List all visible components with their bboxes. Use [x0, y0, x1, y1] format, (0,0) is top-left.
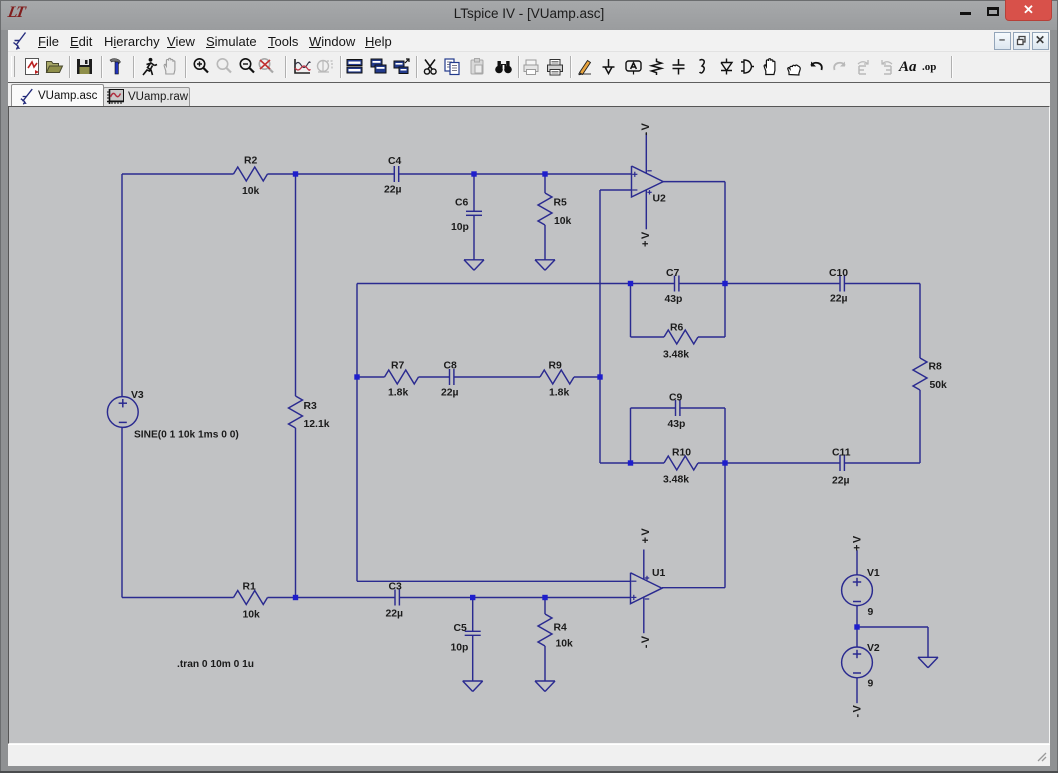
toolbar icon: cascade windows	[368, 56, 389, 77]
svg-text:9: 9	[868, 607, 874, 618]
toolbar bottom edge	[8, 82, 1050, 84]
svg-text:R3: R3	[304, 401, 318, 412]
toolbar icon: mirror (disabled)	[876, 56, 897, 77]
toolbar icon: draw wire	[574, 56, 595, 77]
tab bar	[8, 83, 1050, 106]
svg-text:50k: 50k	[930, 380, 948, 391]
capacitor C7	[674, 276, 676, 292]
toolbar icon: zoom out	[237, 56, 258, 77]
svg-text:C3: C3	[389, 582, 403, 593]
toolbar icon: place inductor	[691, 56, 712, 77]
resistor R1	[234, 591, 268, 605]
MDI restore button	[1013, 32, 1030, 50]
inactive tab VUamp.raw	[103, 87, 190, 108]
toolbar icon: copy	[442, 56, 463, 77]
active tab VUamp.asc	[11, 84, 104, 107]
wire: U1 output up to R10 node	[662, 587, 725, 589]
capacitor C4	[393, 166, 395, 182]
capacitor C9	[675, 400, 677, 416]
svg-text:22µ: 22µ	[830, 294, 848, 305]
toolbar	[8, 51, 1050, 83]
wire: V2 bottom lead	[856, 678, 858, 704]
junction node R5 tap	[542, 171, 547, 176]
LT logo	[6, 4, 31, 22]
svg-text:+V: +V	[640, 230, 652, 247]
svg-text:V3: V3	[131, 390, 144, 401]
svg-text:22µ: 22µ	[832, 476, 850, 487]
svg-text:C11: C11	[832, 448, 851, 459]
junction node R7 tap on box left	[354, 374, 359, 379]
toolbar icon: place capacitor	[668, 56, 689, 77]
title bar	[1, 1, 1057, 30]
resistor R2	[234, 167, 268, 181]
toolbar icon: zoom back (disabled)	[214, 56, 235, 77]
resistor R6	[664, 330, 698, 344]
junction node R9/feedback column	[597, 374, 602, 379]
wire: input top rail y=174 from left column to U2 +input, through R2 and C4	[122, 173, 234, 175]
wire: R10 row y=463 through C11 to right column	[631, 462, 665, 464]
voltage source V2	[842, 647, 873, 678]
svg-text:10k: 10k	[556, 639, 574, 650]
toolbar icon: view waveform	[292, 56, 313, 77]
junction node R4 tap	[542, 595, 547, 600]
svg-text:C9: C9	[669, 393, 683, 404]
svg-text:R7: R7	[391, 361, 405, 372]
bottom window border dark line	[0, 771, 1058, 773]
toolbar icon: place ground	[598, 56, 619, 77]
svg-text:-V: -V	[852, 704, 864, 718]
resistor R5	[538, 193, 552, 225]
svg-text:.op: .op	[922, 61, 936, 73]
resistor R10	[664, 456, 698, 470]
resistor R4	[538, 614, 552, 646]
wire: R10 row lead-in	[600, 462, 631, 464]
title text	[0, 6, 1058, 21]
ground under C5	[463, 680, 483, 682]
wire: feedback column x=600 down to R10 row	[599, 190, 601, 463]
svg-text:43p: 43p	[665, 294, 683, 305]
capacitor C8	[449, 369, 451, 385]
svg-text:R9: R9	[549, 361, 563, 372]
toolbar icon: run simulation	[138, 56, 159, 77]
resize grip	[1036, 751, 1048, 763]
resistor R7	[385, 370, 419, 384]
svg-text:9: 9	[868, 679, 874, 690]
svg-text:R1: R1	[243, 582, 257, 593]
raw tab icon	[107, 89, 124, 104]
toolbar icon: zoom in	[191, 56, 212, 77]
svg-text:22µ: 22µ	[386, 609, 404, 620]
svg-text:1.8k: 1.8k	[549, 388, 569, 399]
toolbar icon: open file	[44, 56, 65, 77]
toolbar icon: cut	[420, 56, 441, 77]
wire: box top from left vertical to C7 node	[357, 283, 631, 285]
toolbar icon: print	[544, 56, 565, 77]
wire: right column x=920 with R8	[919, 284, 921, 359]
junction node V1/V2 midpoint	[854, 624, 859, 629]
svg-text:R8: R8	[929, 362, 943, 373]
toolbar icon: control panel hammer	[106, 56, 127, 77]
svg-text:-V: -V	[640, 122, 652, 136]
wire: U1 power pins	[643, 550, 645, 580]
voltage source V1	[842, 575, 873, 606]
svg-text:R10: R10	[672, 448, 691, 459]
toolbar icon: halt (disabled)	[160, 56, 181, 77]
wire: U2 power pins	[645, 133, 647, 173]
toolbar icon: disabled tool	[314, 56, 335, 77]
svg-text:10p: 10p	[451, 643, 469, 654]
MDI minimize button	[994, 32, 1011, 50]
minimize button	[960, 12, 971, 16]
op-amp U2	[632, 166, 664, 197]
svg-text:+V: +V	[852, 534, 864, 551]
capacitor C5	[465, 630, 481, 632]
junction node U2 output	[722, 281, 727, 286]
svg-text:1.8k: 1.8k	[388, 388, 408, 399]
toolbar icon: place net label	[623, 56, 644, 77]
svg-text:R2: R2	[244, 156, 258, 167]
asc tab icon	[20, 88, 34, 105]
active tab text	[38, 90, 97, 102]
junction node C9/R10 left	[628, 460, 633, 465]
wire: U2 output to node column x=725	[663, 181, 725, 183]
capacitor C6	[466, 210, 482, 212]
toolbar icon: tile horizontally	[344, 56, 365, 77]
junction node C6 tap	[471, 171, 476, 176]
svg-text:U2: U2	[653, 194, 667, 205]
toolbar icon: drag	[783, 56, 804, 77]
svg-text:R6: R6	[670, 323, 684, 334]
toolbar icon: rotate (disabled)	[853, 56, 874, 77]
wire: R4 drop from bottom rail	[544, 598, 546, 615]
svg-text:10k: 10k	[243, 610, 261, 621]
wire: R6 loop legs and row y=337	[630, 284, 632, 338]
wire: box left vertical x=357	[356, 284, 358, 582]
svg-text:22µ: 22µ	[384, 185, 402, 196]
svg-text:10k: 10k	[554, 216, 572, 227]
toolbar grip	[11, 56, 15, 77]
resistor R9	[540, 370, 574, 384]
menu items	[0, 34, 1058, 50]
svg-text:C10: C10	[829, 268, 848, 279]
svg-text:U1: U1	[652, 568, 666, 579]
wire: R5 drop from top rail	[544, 174, 546, 193]
svg-text:R5: R5	[554, 198, 568, 209]
svg-text:-V: -V	[640, 634, 652, 648]
toolbar icon: place diode	[716, 56, 737, 77]
toolbar icon: place component	[737, 56, 758, 77]
toolbar icon: zoom to fit window	[391, 56, 412, 77]
wire: U2 -input stub to feedback column	[600, 189, 632, 191]
resistor R8	[913, 358, 927, 390]
toolbar icon: paste (disabled)	[467, 56, 488, 77]
ground under C6	[464, 259, 484, 261]
svg-text:C7: C7	[666, 268, 680, 279]
wire: C9 loop y=408	[631, 407, 676, 409]
wire: C6 drop from top rail	[473, 174, 475, 211]
toolbar icon: save	[74, 56, 95, 77]
svg-text:10k: 10k	[242, 186, 260, 197]
svg-text:C5: C5	[454, 623, 468, 634]
toolbar icon: find	[493, 56, 514, 77]
wire: R7/C8/R9 row y=377	[357, 376, 385, 378]
wire: bottom input rail y=597.5 from left column through R1, C3 to U1 +input	[122, 597, 234, 599]
svg-text:V2: V2	[867, 643, 880, 654]
menu bar	[8, 30, 1050, 51]
svg-text:V1: V1	[867, 568, 880, 579]
wire: V1 to V2 link and ground branch	[856, 605, 858, 647]
wire: C5 drop from bottom rail	[472, 598, 474, 632]
MDI close button	[1032, 32, 1049, 50]
op-amp U1	[631, 573, 663, 604]
ground under R5	[535, 259, 555, 261]
wire: left column x=122 (V3 branch)	[121, 174, 123, 397]
resistor R3	[289, 396, 303, 428]
inactive tab text	[128, 91, 188, 103]
ground at V1/V2 branch	[918, 656, 938, 658]
junction node R10/C11 right	[722, 460, 727, 465]
toolbar icon: print preview	[520, 56, 541, 77]
capacitor C3	[394, 590, 396, 606]
wire: C10 row to right column	[725, 283, 840, 285]
toolbar icon: redo (disabled)	[829, 56, 850, 77]
svg-text:C6: C6	[455, 198, 469, 209]
svg-text:+V: +V	[640, 527, 652, 544]
toolbar icon: spice directive	[921, 56, 942, 77]
ground under R4	[535, 680, 555, 682]
svg-text:12.1k: 12.1k	[304, 419, 330, 430]
close button	[1005, 0, 1052, 21]
junction node C7 left	[628, 281, 633, 286]
capacitor C10	[839, 276, 841, 292]
svg-text:10p: 10p	[451, 222, 469, 233]
svg-text:C8: C8	[444, 361, 458, 372]
toolbar icon: undo	[806, 56, 827, 77]
svg-text:Aa: Aa	[898, 59, 917, 75]
toolbar icon: place text	[898, 56, 919, 77]
maximize button	[987, 7, 999, 16]
wire: U1 -input row y=581.3	[357, 580, 631, 582]
capacitor C11	[839, 455, 841, 471]
wire: V1 top supply lead	[856, 550, 858, 575]
voltage source V3	[107, 397, 138, 428]
junction node R2/R3 top	[293, 171, 298, 176]
svg-text:C4: C4	[388, 156, 402, 167]
svg-text:3.48k: 3.48k	[663, 475, 689, 486]
menu app icon	[13, 32, 27, 50]
svg-text:3.48k: 3.48k	[663, 350, 689, 361]
toolbar icon: zoom full extents	[256, 56, 277, 77]
junction node R1/R3 bottom	[293, 595, 298, 600]
toolbar icon: move	[760, 56, 781, 77]
svg-text:43p: 43p	[668, 419, 686, 430]
svg-text:R4: R4	[554, 623, 568, 634]
svg-text:SINE(0 1 10k 1ms 0 0): SINE(0 1 10k 1ms 0 0)	[134, 430, 239, 441]
junction node C5 tap	[470, 595, 475, 600]
toolbar icon: new schematic	[22, 56, 43, 77]
wire: band-pass row y=283.5 with C7	[631, 283, 675, 285]
wire: R3 column x=295.5 between rails	[295, 174, 297, 396]
svg-text:22µ: 22µ	[441, 388, 459, 399]
toolbar icon: place resistor	[646, 56, 667, 77]
status bar	[8, 744, 1050, 766]
svg-text:.tran 0 10m 0 1u: .tran 0 10m 0 1u	[177, 659, 254, 670]
